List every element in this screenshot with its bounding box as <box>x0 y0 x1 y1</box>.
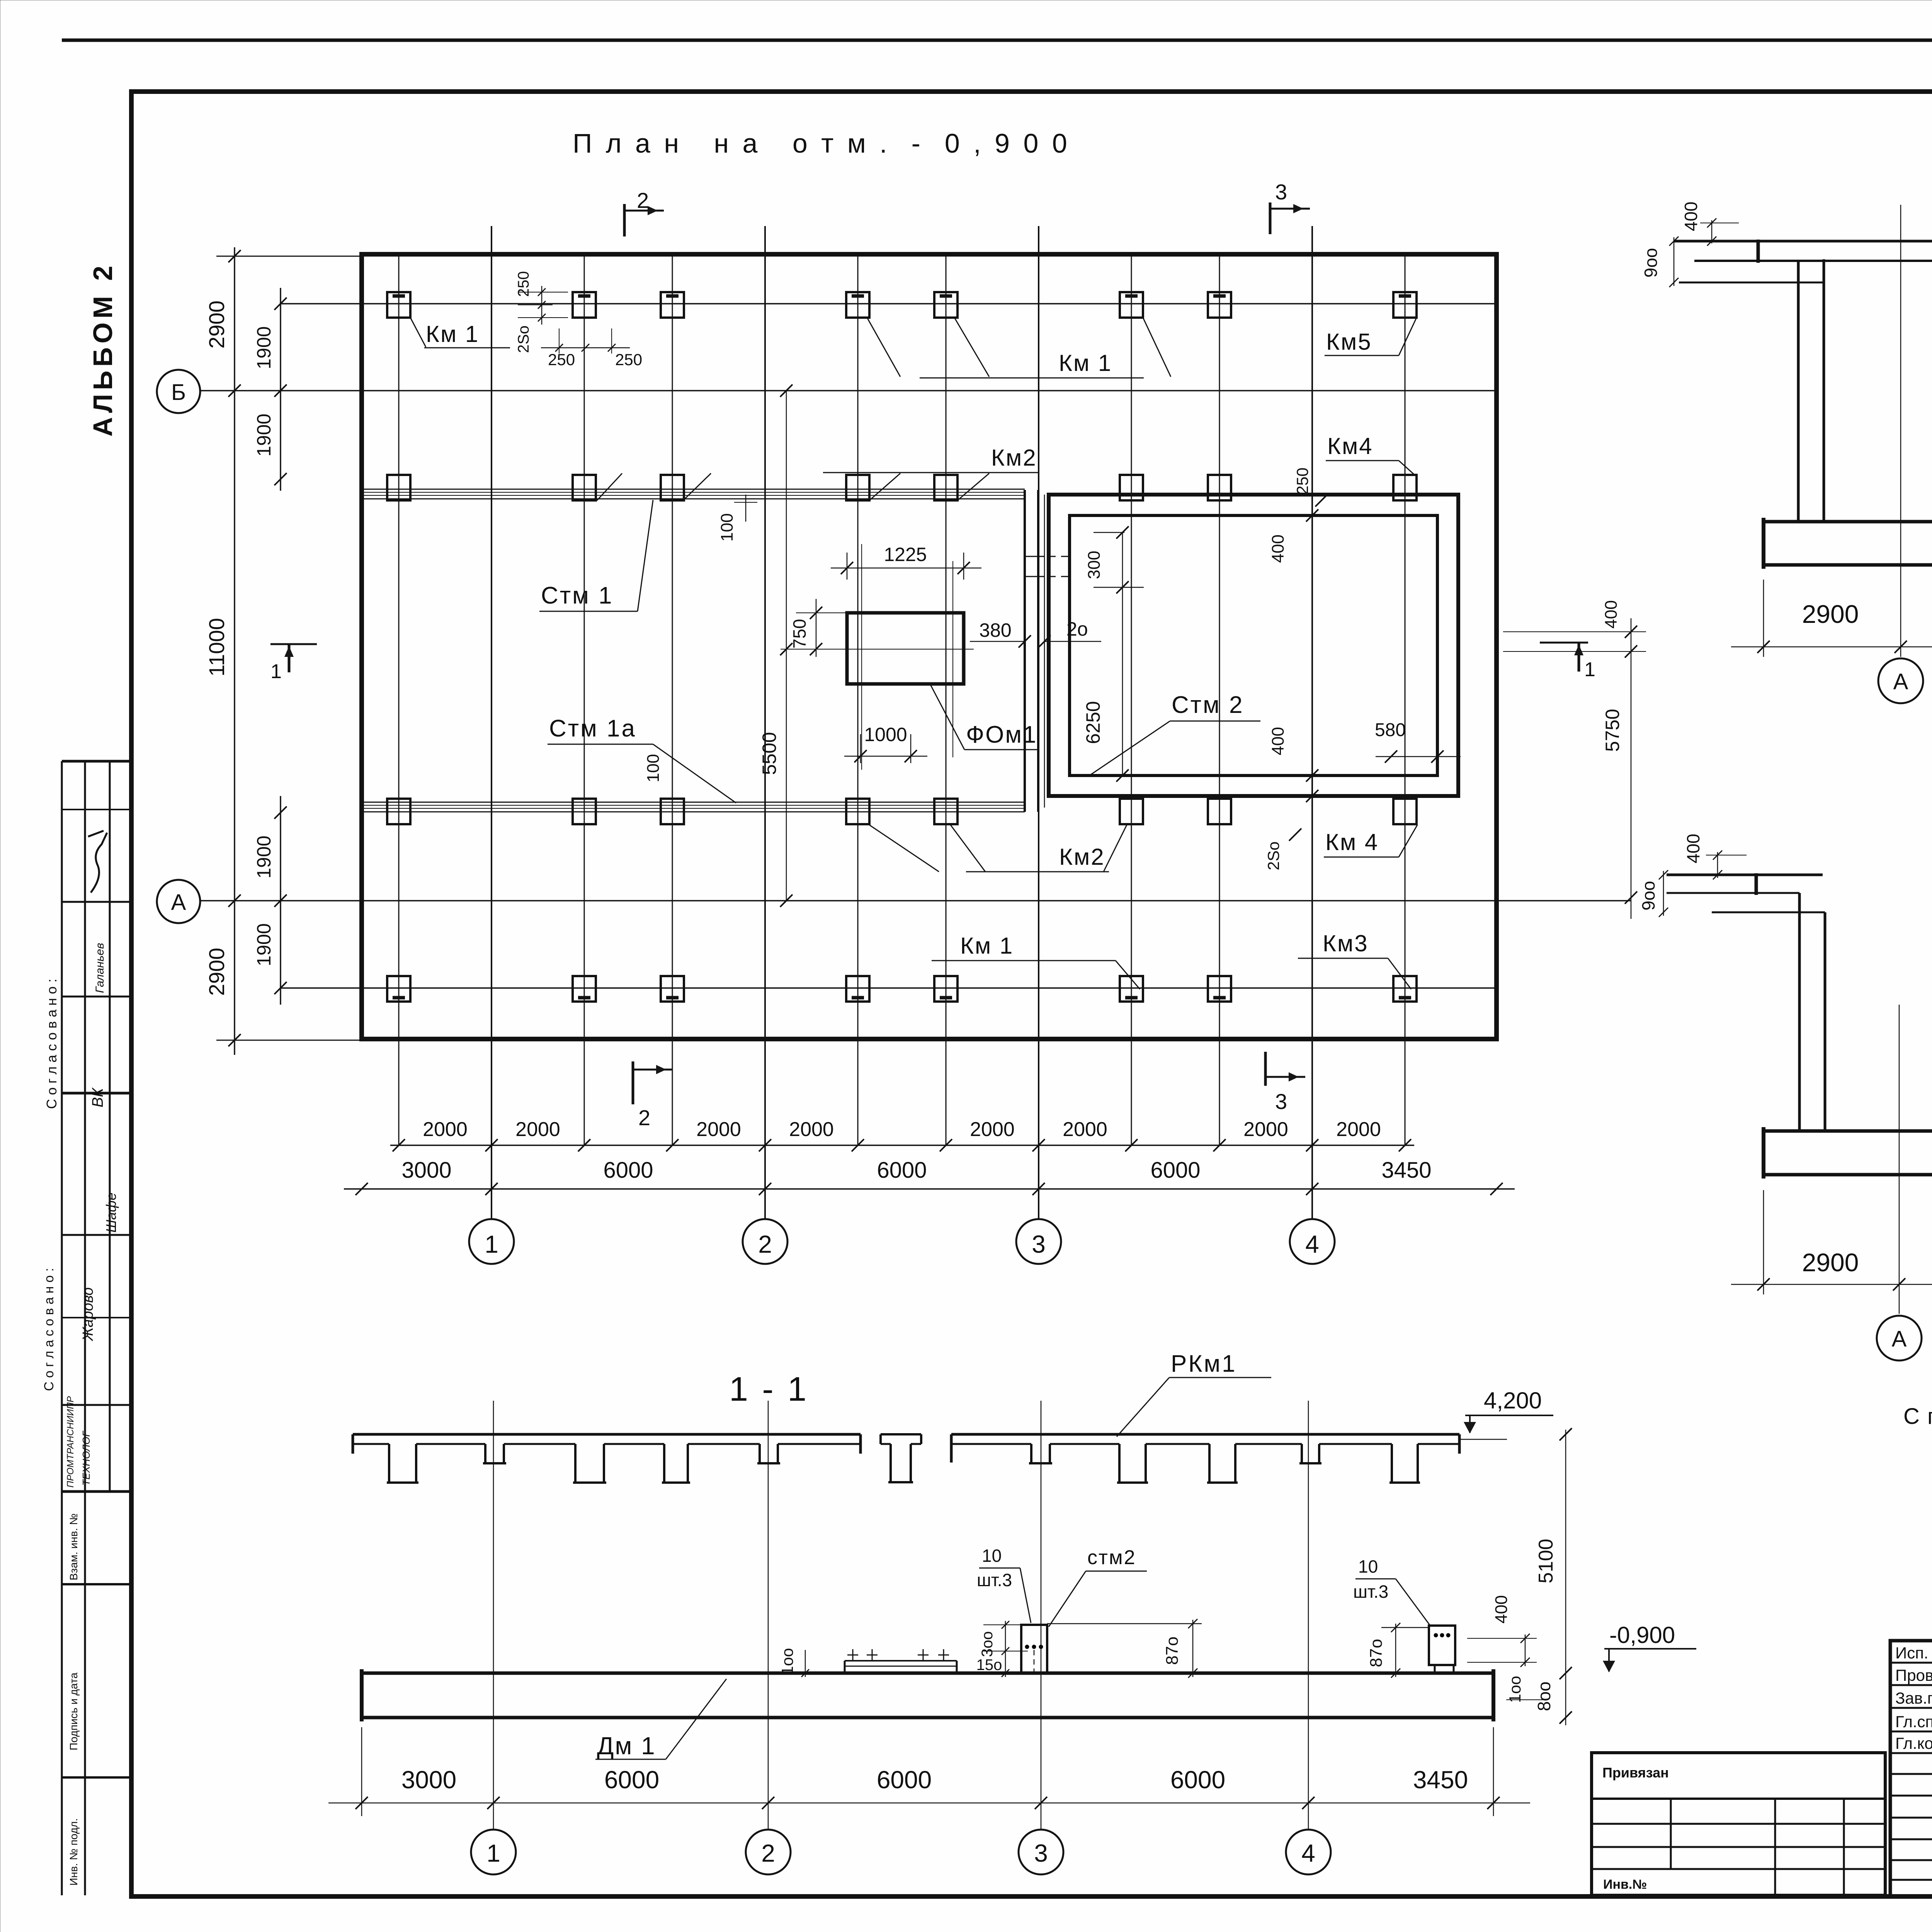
column squares lower band row Км2/Км4 <box>387 799 410 824</box>
svg-text:1: 1 <box>486 1839 500 1867</box>
svg-text:10: 10 <box>1358 1556 1378 1577</box>
svg-text:1225: 1225 <box>884 544 927 565</box>
dimension 250 group at top column <box>541 286 543 325</box>
dashed opening marks on dividing wall <box>1025 556 1044 557</box>
svg-text:Гл.кон.: Гл.кон. <box>1895 1734 1932 1752</box>
wall band Стм1 (upper) <box>362 489 1025 490</box>
svg-text:Км5: Км5 <box>1326 329 1372 355</box>
svg-text:2900: 2900 <box>204 948 229 996</box>
1-1 axis lines and bubbles 1-4 <box>493 1401 494 1830</box>
svg-text:2: 2 <box>638 1105 650 1130</box>
svg-text:шт.3: шт.3 <box>977 1570 1012 1590</box>
svg-text:380: 380 <box>979 619 1011 641</box>
ФОм1 vertical centerlines <box>861 544 862 770</box>
svg-text:10: 10 <box>982 1546 1002 1566</box>
svg-text:Км4: Км4 <box>1327 433 1373 459</box>
dividing wall between pits <box>1024 490 1026 812</box>
dimension 1225 over ФОм1 <box>847 553 848 580</box>
svg-text:400: 400 <box>1492 1595 1511 1623</box>
svg-text:400: 400 <box>1269 534 1287 563</box>
svg-text:стм2: стм2 <box>1087 1546 1136 1569</box>
1-1 bottom dimension chain 3000/6000/6000/6000/3450 <box>361 1727 362 1816</box>
svg-text:87o: 87o <box>1367 1639 1386 1667</box>
svg-text:Гл.сп.: Гл.сп. <box>1895 1713 1932 1731</box>
svg-text:6000: 6000 <box>603 1158 653 1183</box>
axis circle Б <box>157 370 200 413</box>
axis circle А <box>157 880 200 923</box>
svg-text:580: 580 <box>1375 720 1406 740</box>
2-2 axis А line and bubble <box>1900 205 1901 657</box>
svg-text:1900: 1900 <box>253 835 275 878</box>
svg-text:Км 1: Км 1 <box>426 321 479 347</box>
svg-text:Км2: Км2 <box>1059 844 1105 870</box>
dimension chain right of plan 400/5750 <box>1631 618 1632 919</box>
1-1 dimension 870 centre <box>1047 1623 1202 1624</box>
svg-text:1000: 1000 <box>864 724 907 745</box>
1-1 roof slab top line <box>353 1433 861 1436</box>
svg-text:6000: 6000 <box>1170 1766 1225 1794</box>
svg-text:1: 1 <box>485 1230 498 1258</box>
1-1 loose rib block in gap <box>881 1433 921 1435</box>
svg-text:4,200: 4,200 <box>1484 1388 1542 1413</box>
ФОм1 horizontal centerline <box>781 649 974 650</box>
2-2 roof panel joint cap <box>1757 240 1760 263</box>
svg-text:шт.3: шт.3 <box>1353 1582 1388 1602</box>
3-3 floor slab Дм1 <box>1764 1131 1932 1175</box>
dimension 750 left of ФОм1 <box>816 599 817 657</box>
1-1 pilaster Стм2 right <box>1429 1626 1455 1665</box>
2-2 left outer wall <box>1797 261 1800 522</box>
grid row line Б <box>201 390 1497 391</box>
svg-text:А: А <box>1892 1327 1907 1352</box>
svg-text:Стм 2: Стм 2 <box>1172 692 1244 718</box>
svg-text:2: 2 <box>758 1230 772 1258</box>
svg-text:2000: 2000 <box>789 1118 834 1141</box>
signature scribble upper <box>91 833 107 893</box>
svg-text:Подпись и дата: Подпись и дата <box>68 1672 80 1750</box>
svg-text:3000: 3000 <box>401 1766 456 1794</box>
Привязан box <box>1592 1753 1885 1895</box>
svg-text:Инв.№: Инв.№ <box>1603 1877 1647 1892</box>
column squares bottom row Км1/Км3 <box>387 976 410 1002</box>
svg-text:400: 400 <box>1683 834 1703 864</box>
svg-text:Зав.гр.: Зав.гр. <box>1895 1689 1932 1707</box>
svg-text:Привязан: Привязан <box>1602 1765 1669 1781</box>
dimension 6250 inside right pit <box>1122 532 1123 776</box>
sidebar stamp table verticals <box>61 761 63 1895</box>
svg-text:Км 4: Км 4 <box>1325 829 1379 855</box>
3-3 left cantilever slab <box>1667 874 1823 876</box>
wall band Стм1а (lower) <box>362 802 1025 803</box>
svg-text:Жарово: Жарово <box>80 1287 96 1342</box>
1-1 right dimension line 5100/800/100 <box>1565 1430 1566 1725</box>
svg-text:С п е ц и ф и к а ц и ю к: С п е ц и ф и к а ц и ю к п л а н у с м … <box>1903 1404 1932 1429</box>
svg-text:400: 400 <box>1269 727 1287 755</box>
column squares top row Км1/Км5 <box>387 292 410 318</box>
right pit inner wall rectangle <box>1070 515 1437 776</box>
svg-text:3450: 3450 <box>1381 1158 1431 1183</box>
plan outline rectangle <box>362 254 1497 1039</box>
svg-text:4: 4 <box>1305 1230 1319 1258</box>
svg-text:3: 3 <box>1275 1089 1287 1114</box>
svg-text:Км 1: Км 1 <box>960 933 1014 959</box>
svg-text:2900: 2900 <box>1802 1248 1859 1277</box>
column squares upper band row Км2/Км4 <box>387 475 410 500</box>
svg-text:2o: 2o <box>1066 618 1088 640</box>
grid row line bottom columns <box>281 987 1497 989</box>
1-1 roof end caps <box>352 1434 354 1454</box>
svg-text:С о г л а с о в а н о :: С о г л а с о в а н о : <box>44 979 60 1109</box>
svg-text:Стм 1а: Стм 1а <box>549 715 636 742</box>
svg-text:6000: 6000 <box>1150 1158 1200 1183</box>
dimension 1000 under ФОм1 <box>860 734 861 763</box>
1-1 pilaster Стм2 centre <box>1021 1625 1047 1673</box>
svg-text:АЛЬБОМ 2: АЛЬБОМ 2 <box>88 262 118 437</box>
svg-text:2So: 2So <box>1264 842 1282 871</box>
svg-text:Шафе: Шафе <box>103 1192 119 1233</box>
svg-text:ВК: ВК <box>89 1087 106 1107</box>
svg-text:5100: 5100 <box>1535 1539 1557 1583</box>
svg-text:5500: 5500 <box>759 732 780 775</box>
svg-text:3: 3 <box>1032 1230 1046 1258</box>
svg-text:3: 3 <box>1034 1839 1048 1867</box>
3-3 left wall <box>1798 893 1801 1131</box>
svg-text:100: 100 <box>644 754 663 782</box>
1-1 roof slab bottom line left part <box>353 1443 389 1445</box>
svg-text:Галаньев: Галаньев <box>94 943 106 993</box>
svg-text:250: 250 <box>548 350 575 369</box>
svg-text:2000: 2000 <box>423 1118 468 1141</box>
svg-text:1: 1 <box>1584 658 1595 681</box>
1-1 roof full ribs <box>388 1444 390 1483</box>
svg-text:2So: 2So <box>515 325 532 353</box>
svg-text:11000: 11000 <box>204 618 229 677</box>
svg-text:1900: 1900 <box>253 326 275 369</box>
svg-text:2000: 2000 <box>696 1118 741 1141</box>
svg-text:А: А <box>1893 669 1908 694</box>
svg-text:400: 400 <box>1681 202 1701 231</box>
svg-text:2000: 2000 <box>1063 1118 1107 1141</box>
svg-text:9oo: 9oo <box>1638 881 1658 911</box>
svg-text:Б: Б <box>171 380 186 405</box>
svg-text:ПРОМТРАНСНИИПР: ПРОМТРАНСНИИПР <box>65 1396 76 1488</box>
svg-text:1900: 1900 <box>253 923 275 966</box>
svg-text:5750: 5750 <box>1602 709 1623 752</box>
svg-text:2: 2 <box>637 188 649 213</box>
1-1 roof slab bottom line right part <box>951 1443 1031 1445</box>
svg-text:1900: 1900 <box>253 413 275 456</box>
svg-text:1oo: 1oo <box>778 1648 796 1675</box>
svg-text:РКм1: РКм1 <box>1171 1350 1237 1377</box>
3-3 bottom dimension 2900/11000/2900 <box>1763 1190 1764 1294</box>
section mark 3 top <box>1269 202 1272 234</box>
dimension chain inner left 1900s <box>280 288 281 491</box>
1-1 roof joint ribs at axes <box>484 1444 486 1463</box>
svg-text:ТЕХНОЛОГ: ТЕХНОЛОГ <box>80 1430 92 1486</box>
svg-text:1oo: 1oo <box>1506 1676 1524 1703</box>
section mark 3 bottom <box>1264 1052 1267 1086</box>
axis bubbles 1-4 under plan <box>491 1218 492 1220</box>
svg-text:87o: 87o <box>1163 1636 1182 1665</box>
1-1 dimensions 300/150 at pilaster <box>1005 1621 1006 1677</box>
section mark 2 bottom <box>632 1061 634 1104</box>
2-2 left edge beam line <box>1679 282 1798 284</box>
svg-text:Км 1: Км 1 <box>1059 350 1112 376</box>
svg-text:400: 400 <box>1602 600 1621 628</box>
dimension chain 2000 offsets <box>390 1145 1414 1146</box>
3-3 axis А line and bubble <box>1899 1005 1900 1314</box>
svg-text:15o: 15o <box>976 1656 1002 1673</box>
svg-text:3000: 3000 <box>401 1158 451 1183</box>
section mark 2 top <box>623 204 626 236</box>
svg-text:Исп.: Исп. <box>1895 1644 1929 1662</box>
svg-text:9oo: 9oo <box>1641 248 1661 278</box>
svg-text:6000: 6000 <box>877 1766 932 1794</box>
section mark 1 right <box>1540 642 1588 644</box>
grid row line top columns <box>281 303 1497 304</box>
2-2 floor slab Дм1 <box>1764 522 1932 565</box>
1-1 floor slab Дм1 <box>362 1673 1493 1718</box>
svg-text:ФОм1: ФОм1 <box>966 721 1037 748</box>
svg-text:300: 300 <box>1085 551 1104 579</box>
svg-text:3: 3 <box>1275 180 1287 204</box>
svg-text:Стм 1: Стм 1 <box>541 582 614 609</box>
sidebar stamp table horizontals <box>62 760 131 763</box>
svg-text:6250: 6250 <box>1082 701 1104 744</box>
svg-text:3450: 3450 <box>1413 1766 1468 1794</box>
section mark 1 left <box>270 643 317 645</box>
svg-text:Взам. инв. №: Взам. инв. № <box>68 1514 80 1580</box>
svg-text:2: 2 <box>761 1839 775 1867</box>
dimension chain outer left 2900-11000-2900 <box>234 247 235 1055</box>
svg-text:2900: 2900 <box>204 301 229 349</box>
sheet outer top border line <box>62 39 1932 42</box>
svg-text:100: 100 <box>718 513 736 541</box>
svg-text:2000: 2000 <box>1243 1118 1288 1141</box>
foundation slab ФОм1 rectangle <box>847 613 964 684</box>
svg-text:4: 4 <box>1301 1839 1315 1867</box>
2-2 roof slab bottom line <box>1694 260 1932 262</box>
svg-text:Км3: Км3 <box>1323 930 1369 956</box>
2-2 bottom dimension 2900/11000/2900 <box>1763 580 1764 657</box>
svg-text:2000: 2000 <box>1336 1118 1381 1141</box>
svg-text:6000: 6000 <box>877 1158 927 1183</box>
2-2 roof slab top line <box>1674 240 1932 243</box>
dimension 5500 vertical <box>786 391 787 901</box>
1-1 embedded beam on floor <box>845 1660 957 1662</box>
svg-text:1 - 1: 1 - 1 <box>729 1370 809 1408</box>
svg-text:2900: 2900 <box>1802 600 1859 628</box>
svg-text:6000: 6000 <box>604 1766 659 1794</box>
right pit outer wall rectangle <box>1049 495 1458 796</box>
column centerline verticals <box>398 256 400 1145</box>
svg-text:Дм 1: Дм 1 <box>597 1732 656 1760</box>
svg-text:3oo: 3oo <box>979 1631 996 1657</box>
dimension chain 3000/6000/6000/6000/3450 <box>344 1188 1515 1190</box>
svg-text:Км2: Км2 <box>991 445 1037 471</box>
svg-text:-0,900: -0,900 <box>1609 1622 1675 1648</box>
svg-text:Пров.: Пров. <box>1895 1666 1932 1684</box>
svg-text:2000: 2000 <box>970 1118 1015 1141</box>
svg-text:250: 250 <box>1293 468 1311 495</box>
svg-text:Инв. № подл.: Инв. № подл. <box>68 1818 80 1886</box>
svg-text:250: 250 <box>615 350 642 369</box>
svg-text:П л а н н а о т м . - 0: П л а н н а о т м . - 0 , 9 0 0 <box>573 128 1070 158</box>
grid axis verticals 1-4 <box>491 226 492 1219</box>
grid row line А <box>201 900 1631 901</box>
1-1 anchor cross marks <box>847 1655 858 1656</box>
svg-text:А: А <box>171 890 186 915</box>
svg-text:2000: 2000 <box>515 1118 560 1141</box>
svg-text:250: 250 <box>515 271 532 297</box>
svg-text:1: 1 <box>270 660 282 683</box>
svg-text:8oo: 8oo <box>1534 1682 1554 1711</box>
svg-text:С о г л а с о в а н о :: С о г л а с о в а н о : <box>42 1268 56 1391</box>
title block signature table <box>1890 1641 1932 1896</box>
1-1 dimension 870 right <box>1381 1627 1429 1628</box>
